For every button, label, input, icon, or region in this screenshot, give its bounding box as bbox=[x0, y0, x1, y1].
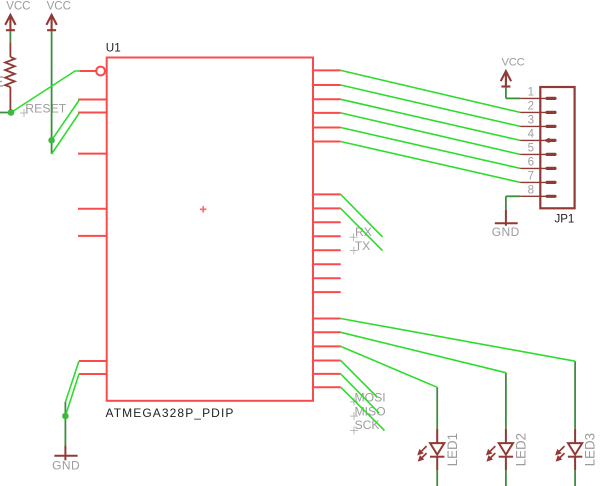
svg-text:LED2: LED2 bbox=[514, 433, 529, 467]
svg-text:1: 1 bbox=[528, 87, 534, 99]
svg-text:8: 8 bbox=[528, 185, 534, 197]
svg-text:GND: GND bbox=[492, 225, 520, 239]
svg-text:VCC: VCC bbox=[6, 1, 30, 13]
svg-text:5: 5 bbox=[528, 143, 534, 155]
svg-text:VCC: VCC bbox=[502, 57, 525, 69]
svg-text:U1: U1 bbox=[106, 42, 121, 55]
svg-text:VCC: VCC bbox=[47, 1, 71, 13]
svg-text:4: 4 bbox=[528, 129, 535, 141]
svg-text:ATMEGA328P_PDIP: ATMEGA328P_PDIP bbox=[106, 406, 235, 420]
svg-text:7: 7 bbox=[528, 171, 534, 183]
svg-text:LED3: LED3 bbox=[583, 433, 598, 467]
svg-text:2: 2 bbox=[528, 101, 534, 113]
svg-text:RESET: RESET bbox=[25, 102, 66, 116]
svg-text:SCK: SCK bbox=[355, 418, 380, 432]
svg-text:LED1: LED1 bbox=[445, 433, 460, 467]
svg-text:3: 3 bbox=[528, 115, 534, 127]
svg-text:GND: GND bbox=[52, 459, 80, 473]
svg-text:6: 6 bbox=[528, 157, 534, 169]
svg-text:JP1: JP1 bbox=[555, 214, 575, 226]
